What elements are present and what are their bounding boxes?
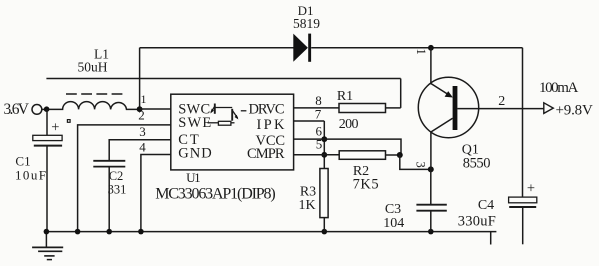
svg-text:1: 1 — [414, 49, 428, 55]
capacitor C1 positive lead — [46, 109, 48, 135]
node dot: Q1 lower lead junction — [428, 166, 434, 172]
capacitor C3 — [416, 205, 446, 211]
svg-text:2: 2 — [498, 94, 505, 109]
wire: pin 8 to R1 — [294, 107, 339, 109]
node dots on ground rail — [44, 229, 434, 235]
svg-text:2: 2 — [138, 107, 145, 122]
wire: jog from R2 node to Q1 lower lead — [400, 155, 431, 169]
capacitor C2 — [93, 161, 125, 167]
wire: ground symbol lead — [45, 232, 47, 248]
wire: right rail down from diode line to C4 — [522, 48, 524, 197]
wire: top diode line right segment — [311, 47, 522, 49]
svg-text:R1: R1 — [337, 89, 353, 104]
svg-text:5: 5 — [316, 136, 323, 151]
svg-text:C2: C2 — [109, 169, 124, 183]
wire: pin 2 from IC down to ground rail — [78, 125, 171, 232]
svg-text:8550: 8550 — [463, 156, 491, 172]
svg-text:U1: U1 — [186, 170, 201, 185]
wire: vertical linking pin7, pin6, pin5, R3 — [323, 121, 325, 169]
svg-text:DRVC: DRVC — [249, 101, 285, 117]
wire: pin 4 from IC down to ground rail — [141, 155, 171, 232]
wire: Q1 output line to arrow — [457, 108, 543, 110]
wire: C3 top lead — [430, 169, 432, 204]
input terminal 3.6V — [32, 105, 42, 115]
diode D1 — [293, 34, 311, 62]
svg-text:7: 7 — [315, 107, 322, 122]
svg-text:3: 3 — [414, 162, 428, 168]
svg-text:331: 331 — [108, 183, 127, 197]
svg-text:+9.8V: +9.8V — [556, 103, 593, 119]
wire: pin 3 from IC to C2 — [109, 140, 171, 161]
wire: Q1 bottom lead — [430, 131, 432, 169]
wire: pin 6 to right column — [294, 139, 401, 155]
svg-text:+: + — [527, 181, 535, 197]
wire: vertical from diode line down to pin1 node — [139, 48, 141, 109]
svg-text:C3: C3 — [385, 202, 401, 217]
svg-text:1: 1 — [141, 92, 147, 106]
resistor R1 — [339, 104, 386, 113]
wire: C2 bottom to ground rail — [108, 167, 110, 232]
svg-text:C4: C4 — [478, 198, 494, 213]
wire: vertical from rail down to R1 right lead — [400, 79, 402, 108]
output arrow — [544, 103, 554, 114]
wire: R2 right lead — [386, 154, 400, 156]
wire: C3 bottom lead — [430, 211, 432, 232]
transistor Q1 — [418, 77, 478, 137]
wire: C4 bottom lead — [522, 207, 524, 244]
wire: pin 1 to IC — [140, 108, 171, 110]
ground — [32, 247, 63, 259]
wire: terminal to input node — [42, 108, 50, 110]
svg-text:10uF: 10uF — [15, 167, 46, 182]
node dot on pin 5 wire — [321, 152, 327, 158]
svg-text:3: 3 — [139, 124, 146, 139]
stub at right end of ground rail — [490, 232, 492, 245]
wire: pin 7 stub — [294, 120, 325, 122]
svg-text:5819: 5819 — [293, 16, 320, 31]
svg-text:3.6V: 3.6V — [4, 101, 30, 118]
wire: supply rail from input to R1 column — [46, 78, 400, 80]
node dot: R2 right junction — [397, 152, 403, 158]
svg-text:100mA: 100mA — [539, 80, 578, 96]
inductor polarity dot — [67, 120, 70, 123]
svg-text:4: 4 — [139, 140, 146, 155]
svg-text:MC33063AP1(DIP8): MC33063AP1(DIP8) — [155, 185, 276, 202]
bottom ground rail — [46, 231, 496, 233]
svg-text:CMPR: CMPR — [247, 146, 285, 162]
capacitor C4 — [509, 197, 537, 207]
wire: C1 bottom to ground rail — [46, 146, 48, 232]
inductor L1 — [50, 102, 140, 110]
resistor R2 — [339, 151, 385, 160]
IC internal darlington doodle — [208, 104, 247, 126]
node dot on pin 6 wire — [321, 136, 327, 142]
capacitor C1 — [33, 135, 62, 145]
resistor R3 — [320, 169, 328, 218]
wire: top diode line left segment — [140, 47, 294, 49]
inductor L1 core dashed line — [66, 93, 123, 95]
svg-text:+: + — [51, 120, 59, 136]
svg-text:330uF: 330uF — [458, 214, 496, 230]
svg-text:104: 104 — [383, 216, 404, 231]
wire: R3 bottom to ground rail — [323, 218, 325, 232]
node: pin1 junction — [137, 106, 143, 112]
wire: pin 5 to R2 — [294, 154, 340, 156]
svg-text:SWE: SWE — [178, 115, 211, 131]
wire: R1 right lead — [386, 107, 401, 109]
svg-text:7K5: 7K5 — [353, 176, 379, 192]
svg-text:200: 200 — [339, 117, 359, 132]
svg-text:IPK: IPK — [257, 117, 286, 133]
wire: Q1 top lead from diode line — [430, 48, 432, 85]
svg-text:1K: 1K — [298, 198, 315, 213]
node A: junction on diode line above Q1 — [428, 45, 434, 51]
node: input junction — [44, 106, 50, 112]
IC U1 box — [171, 94, 294, 170]
svg-text:GND: GND — [178, 145, 212, 161]
svg-text:50uH: 50uH — [78, 60, 108, 75]
